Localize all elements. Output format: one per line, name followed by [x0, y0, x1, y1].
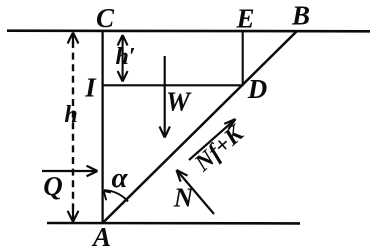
ground line top (C-E-B surface): [7, 29, 370, 32]
svg-text:I: I: [84, 73, 97, 103]
dimension arrow h': [122, 36, 124, 81]
force arrow W: [164, 56, 166, 136]
svg-text:h: h: [64, 102, 77, 128]
arrowhead up (h line top): [68, 33, 79, 45]
svg-text:Q: Q: [43, 171, 63, 201]
line E-D: [242, 31, 244, 85]
incline A-B: [103, 31, 297, 223]
svg-text:h′: h′: [115, 44, 135, 70]
wall face C-A: [101, 30, 103, 223]
svg-text:D: D: [247, 74, 268, 104]
svg-text:W: W: [166, 87, 192, 117]
dashed height line h: [72, 41, 74, 214]
angle arc alpha: [104, 190, 128, 201]
force arrow Nf+K: [189, 120, 234, 160]
force arrow Q: [42, 170, 96, 172]
svg-text:E: E: [235, 4, 254, 34]
ground line bottom (through A): [47, 222, 300, 225]
svg-text:α: α: [111, 162, 128, 194]
force arrow N: [178, 171, 214, 214]
arrowhead down (h line bottom): [68, 210, 79, 222]
svg-text:N: N: [173, 183, 195, 213]
line I-D: [103, 84, 244, 86]
svg-text:B: B: [291, 1, 310, 31]
svg-text:A: A: [91, 222, 111, 252]
svg-text:C: C: [96, 3, 115, 33]
